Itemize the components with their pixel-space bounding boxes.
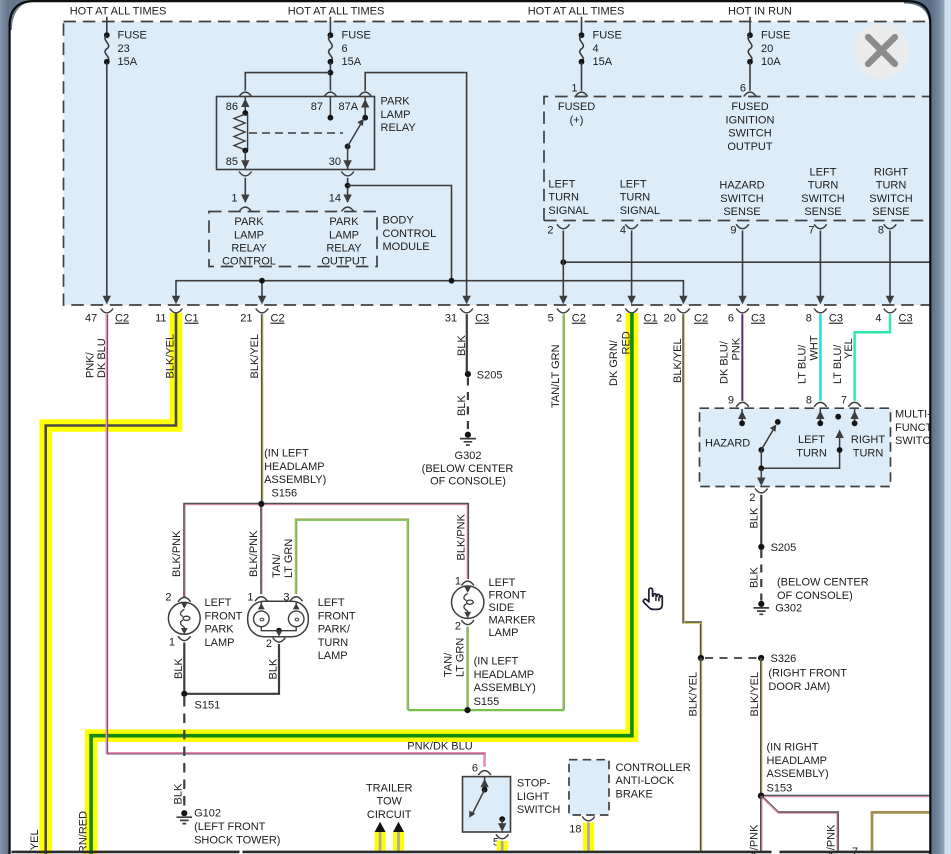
label LEFT TURN SIGNAL (pin 4) xyxy=(620,178,660,217)
svg-text:SENSE: SENSE xyxy=(723,206,760,218)
label LEFT FRONT PARK/ TURN LAMP xyxy=(318,597,356,662)
svg-text:PARK: PARK xyxy=(234,216,264,228)
stop-light pin 5 connector xyxy=(493,834,509,848)
highlight band BLK/YEL circuit 11 C1 xyxy=(46,313,176,854)
svg-text:BLK: BLK xyxy=(749,567,761,588)
svg-text:LAMP: LAMP xyxy=(205,637,235,649)
svg-text:MULTI-: MULTI- xyxy=(895,409,931,421)
svg-text:BRAKE: BRAKE xyxy=(616,789,653,801)
svg-text:C2: C2 xyxy=(271,313,285,325)
relay pin 86 connector xyxy=(226,92,252,113)
svg-text:15A: 15A xyxy=(593,56,613,68)
svg-text:HOT AT ALL TIMES: HOT AT ALL TIMES xyxy=(288,6,385,18)
svg-text:HOT IN RUN: HOT IN RUN xyxy=(728,6,792,18)
svg-text:RIGHT: RIGHT xyxy=(874,166,909,178)
lamp LEFT FRONT SIDE MARKER LAMP xyxy=(452,576,484,633)
ground G102 (LEFT FRONT SHOCK TOWER) xyxy=(177,808,281,847)
MFS pin 9 connector xyxy=(728,395,749,407)
wire bus A (turn signal feed) xyxy=(560,259,929,265)
lamp LEFT FRONT PARK LAMP xyxy=(165,592,200,649)
relay switch contacts xyxy=(328,97,370,169)
svg-text:8: 8 xyxy=(878,225,884,237)
connector 47 C2 xyxy=(85,309,129,325)
wire pin 7 to connector 8 C3 xyxy=(816,231,824,305)
svg-text:7: 7 xyxy=(808,225,814,237)
wire DK BLU/PNK from 6 C3 to multi-function switch pin 9 xyxy=(741,314,744,401)
svg-text:LAMP: LAMP xyxy=(329,229,359,241)
svg-text:2: 2 xyxy=(547,225,553,237)
connector 21 C2 xyxy=(240,309,284,325)
svg-text:RELAY: RELAY xyxy=(381,122,417,134)
svg-text:SENSE: SENSE xyxy=(804,206,841,218)
stop-light switch contacts xyxy=(469,777,506,832)
svg-text:1: 1 xyxy=(455,576,461,588)
highlight band trailer stub right xyxy=(393,832,404,851)
label CONTROLLER ANTI-LOCK BRAKE xyxy=(616,762,691,801)
svg-text:15A: 15A xyxy=(118,56,138,68)
connector 4 C3 xyxy=(875,309,912,325)
svg-text:FRONT: FRONT xyxy=(318,610,356,622)
svg-text:DK GRN/RED: DK GRN/RED xyxy=(78,811,90,854)
pin 8 connector at function box xyxy=(878,224,896,236)
label BODY CONTROL MODULE xyxy=(383,215,437,254)
highlight band ABS pin 18 stub xyxy=(583,823,594,851)
stop-light switch box xyxy=(463,777,511,832)
svg-text:OUTPUT: OUTPUT xyxy=(321,256,367,268)
pin 1 connector at fused box xyxy=(571,83,587,97)
svg-text:BLK/YEL: BLK/YEL xyxy=(749,672,761,717)
splice S205 (console) xyxy=(465,369,503,381)
fused output function box (dashed inner box) xyxy=(544,97,935,221)
svg-text:HOT AT ALL TIMES: HOT AT ALL TIMES xyxy=(70,6,167,18)
connector 8 C3 xyxy=(806,309,843,325)
svg-text:PARK/: PARK/ xyxy=(318,624,351,636)
svg-text:87A: 87A xyxy=(339,101,359,113)
wire BLK/YEL from 21 C2 to splice S156 xyxy=(261,314,264,504)
MFS switch lever xyxy=(758,419,780,453)
relay pin 87A connector xyxy=(339,92,372,113)
svg-text:20: 20 xyxy=(664,313,676,325)
wire BLK/YEL S326 to splice S153 xyxy=(760,658,763,796)
svg-text:LEFT: LEFT xyxy=(489,577,516,589)
highlight band stop-light pin 5 stub xyxy=(497,841,508,851)
wire ABS pin 18 stub xyxy=(587,823,590,851)
svg-text:LEFT: LEFT xyxy=(810,166,837,178)
svg-text:LAMP: LAMP xyxy=(489,627,519,639)
svg-text:MODULE: MODULE xyxy=(383,241,430,253)
svg-text:BLK/PNK: BLK/PNK xyxy=(171,530,183,577)
svg-text:(IN LEFT: (IN LEFT xyxy=(264,448,309,460)
svg-text:2: 2 xyxy=(749,492,755,504)
svg-text:HEADLAMP: HEADLAMP xyxy=(474,669,535,681)
BCM pin 1 connector xyxy=(231,193,251,212)
svg-text:FRONT: FRONT xyxy=(489,589,527,601)
label MULTI-FUNCTION SWITCH xyxy=(895,409,944,448)
svg-text:47: 47 xyxy=(85,313,97,325)
relay pin 85 connector xyxy=(226,156,252,176)
label LEFT TURN SIGNAL (pin 2) xyxy=(548,178,588,217)
connector 2 C1 xyxy=(616,309,658,325)
svg-text:SHOCK TOWER): SHOCK TOWER) xyxy=(194,834,280,846)
svg-text:10A: 10A xyxy=(761,56,781,68)
label PARK LAMP RELAY OUTPUT xyxy=(321,216,367,268)
svg-text:C3: C3 xyxy=(899,313,913,325)
svg-text:PARK: PARK xyxy=(205,624,235,636)
svg-text:HEADLAMP: HEADLAMP xyxy=(264,461,325,473)
pin 2 connector at function box xyxy=(547,224,569,236)
svg-text:(LEFT FRONT: (LEFT FRONT xyxy=(194,821,266,833)
svg-text:TOW: TOW xyxy=(376,796,402,808)
svg-text:TURN: TURN xyxy=(620,192,651,204)
svg-text:PNK/DK BLU: PNK/DK BLU xyxy=(407,741,472,753)
svg-text:DK GRN/: DK GRN/ xyxy=(608,339,620,386)
fuse F20 10A xyxy=(747,17,790,68)
MFS right turn branch xyxy=(758,414,843,471)
svg-text:LT GRN: LT GRN xyxy=(283,539,295,578)
svg-text:BLK/PNK: BLK/PNK xyxy=(826,824,838,854)
svg-text:TURN: TURN xyxy=(318,637,349,649)
svg-text:6: 6 xyxy=(740,83,746,95)
svg-text:FUSED: FUSED xyxy=(731,101,768,113)
wire TAN/LT GRN bus at splice S155 xyxy=(408,627,564,710)
svg-text:LT BLU/: LT BLU/ xyxy=(797,344,809,384)
highlight band DK GRN/RED circuit 2 C1 xyxy=(91,313,632,854)
svg-text:S205: S205 xyxy=(771,542,797,554)
body control module box xyxy=(209,212,377,267)
label PARK LAMP RELAY xyxy=(381,96,417,135)
svg-text:SIGNAL: SIGNAL xyxy=(620,205,660,217)
svg-text:ANTI-LOCK: ANTI-LOCK xyxy=(616,775,675,787)
svg-text:BLK/YEL: BLK/YEL xyxy=(249,334,261,379)
splice S326 (RIGHT FRONT DOOR JAM) xyxy=(698,653,848,693)
wire pin 9 to connector 6 C3 xyxy=(738,231,746,305)
connector 11 C1 xyxy=(155,309,198,325)
label DK BLU/ PNK (6 C3) xyxy=(719,337,743,384)
MFS pin 7 contact xyxy=(850,409,858,426)
wire TAN/LT GRN from 5 C2 to splice S155 xyxy=(563,314,564,710)
svg-text:2: 2 xyxy=(616,313,622,325)
svg-text:4: 4 xyxy=(620,225,626,237)
svg-text:C1: C1 xyxy=(644,313,658,325)
svg-text:WHT: WHT xyxy=(809,335,821,360)
label RIGHT TURN SWITCH SENSE (pin 8) xyxy=(869,166,912,218)
node under fuse 6 xyxy=(328,70,334,76)
svg-text:PNK/: PNK/ xyxy=(85,351,97,378)
wire BLK/PNK S153 straight down xyxy=(760,796,763,851)
BCM pin 14 connector xyxy=(329,193,354,212)
svg-text:C3: C3 xyxy=(829,313,843,325)
svg-text:SWITCH: SWITCH xyxy=(801,193,844,205)
relay coil xyxy=(234,97,250,169)
wire TAN corner at bottom right xyxy=(872,812,930,850)
svg-text:FUSE: FUSE xyxy=(118,30,147,42)
svg-text:(RIGHT FRONT: (RIGHT FRONT xyxy=(768,668,847,680)
svg-text:S153: S153 xyxy=(767,782,793,794)
svg-text:8: 8 xyxy=(806,395,812,407)
svg-text:MARKER: MARKER xyxy=(489,614,536,626)
svg-text:LT GRN: LT GRN xyxy=(455,638,467,677)
label TAN/ LT GRN (side marker pin 2) xyxy=(443,638,467,677)
close button xyxy=(854,23,909,78)
svg-text:S155: S155 xyxy=(474,696,500,708)
wire power bus to relay pins 86 87A and connector 31 C3 xyxy=(245,73,470,305)
MFS hazard contact xyxy=(738,409,746,426)
svg-text:87: 87 xyxy=(311,101,323,113)
MFS pin 8 connector xyxy=(806,395,827,407)
wire TAN/LT GRN park/turn pin 3 to splice S155 xyxy=(295,519,408,710)
svg-text:BLK: BLK xyxy=(173,783,185,804)
svg-text:23: 23 xyxy=(118,43,130,55)
svg-text:TURN: TURN xyxy=(808,180,839,192)
label PNK/ DK BLU (47 C2) xyxy=(85,338,109,378)
svg-text:2: 2 xyxy=(455,621,461,633)
wire relay 85 to BCM pin 1 xyxy=(241,178,249,203)
svg-text:TURN: TURN xyxy=(876,180,907,192)
svg-text:G302: G302 xyxy=(775,603,802,615)
wire fuse 4 to pin 1 FUSED(+) xyxy=(581,63,583,91)
wire BLK/YEL highlighted core (11 C1) xyxy=(46,313,176,854)
wire BLK/YEL from 20 C2 to splice S326 xyxy=(683,314,701,656)
svg-text:CIRCUIT: CIRCUIT xyxy=(367,809,412,821)
label LEFT FRONT PARK LAMP xyxy=(205,597,243,649)
svg-text:SIDE: SIDE xyxy=(489,602,515,614)
connector 31 C3 xyxy=(445,309,489,325)
wire PNK/DK BLU from 47 C2 to stop-light switch pin 6 xyxy=(107,314,485,767)
splice node S153 xyxy=(758,793,765,800)
svg-text:OF CONSOLE): OF CONSOLE) xyxy=(430,475,506,487)
svg-text:1: 1 xyxy=(231,193,237,205)
svg-text:HAZARD: HAZARD xyxy=(719,180,764,192)
svg-text:OF CONSOLE): OF CONSOLE) xyxy=(777,590,853,602)
svg-text:LEFT: LEFT xyxy=(798,434,825,446)
svg-text:RIGHT: RIGHT xyxy=(851,434,886,446)
ABS pin 18 connector xyxy=(569,817,595,836)
svg-text:RELAY: RELAY xyxy=(231,243,267,255)
svg-text:LAMP: LAMP xyxy=(234,229,264,241)
wire stop-light pin 5 stub xyxy=(501,841,504,851)
svg-text:SWITCH: SWITCH xyxy=(869,193,912,205)
svg-text:DK BLU/: DK BLU/ xyxy=(719,340,731,384)
svg-text:TURN: TURN xyxy=(548,192,579,204)
svg-text:BODY: BODY xyxy=(383,215,415,227)
svg-text:BLK/YEL: BLK/YEL xyxy=(29,829,41,854)
svg-text:9: 9 xyxy=(728,395,734,407)
wire BLK MFS pin 2 to splice S205 xyxy=(760,495,762,547)
svg-text:SIGNAL: SIGNAL xyxy=(548,205,588,217)
pin 6 connector at fused box xyxy=(740,83,756,97)
svg-text:BLK/YEL: BLK/YEL xyxy=(165,334,177,379)
label FUSED IGNITION SWITCH OUTPUT xyxy=(726,101,775,153)
wire fuse 6 to relay pin 87 xyxy=(329,63,331,91)
wire trailer stub right xyxy=(397,832,400,851)
wire relay 30 to BCM pin 14 and output bus xyxy=(343,178,451,281)
svg-text:RED: RED xyxy=(621,331,633,354)
stop-light pin 6 connector xyxy=(472,762,491,775)
lamp LEFT FRONT PARK/TURN LAMP xyxy=(247,592,308,651)
svg-text:8: 8 xyxy=(806,313,812,325)
svg-text:C1: C1 xyxy=(185,313,199,325)
label DK GRN/ RED (2 C1) xyxy=(608,331,633,386)
svg-text:FUSE: FUSE xyxy=(761,30,790,42)
multi-function switch box xyxy=(700,408,891,486)
highlight band trailer stub left xyxy=(375,832,386,851)
svg-text:BLK: BLK xyxy=(456,335,468,356)
label S155 (IN LEFT HEADLAMP ASSEMBLY) xyxy=(474,656,536,709)
relay internal dashed link xyxy=(249,132,343,134)
wire trailer stub left xyxy=(379,832,382,851)
wire bus B (park lamp feed) xyxy=(172,278,688,304)
svg-text:14: 14 xyxy=(329,193,341,205)
wire LT BLU/WHT from 8 C3 to multi-function switch pin 8 xyxy=(819,314,822,401)
svg-text:BLK: BLK xyxy=(749,507,761,528)
MFS pin 7 connector xyxy=(841,395,861,407)
svg-text:SWITCH: SWITCH xyxy=(517,804,560,816)
svg-text:TAN/: TAN/ xyxy=(443,652,455,677)
svg-text:2: 2 xyxy=(165,592,171,604)
svg-text:RELAY: RELAY xyxy=(326,243,362,255)
connector 6 C3 xyxy=(728,309,765,325)
svg-text:FRONT: FRONT xyxy=(205,610,243,622)
label RIGHT TURN (MFS) xyxy=(851,434,886,459)
svg-text:DOOR JAM): DOOR JAM) xyxy=(768,681,830,693)
relay K1 PARK LAMP RELAY box xyxy=(217,97,375,170)
svg-text:31: 31 xyxy=(445,313,457,325)
trailer tow arrow left xyxy=(375,822,386,832)
svg-text:TAN/LT GRN: TAN/LT GRN xyxy=(550,344,562,408)
label TRAILER TOW CIRCUIT xyxy=(366,782,413,821)
label LT BLU/ YEL (4 C3) xyxy=(832,338,855,384)
label LEFT FRONT SIDE MARKER LAMP xyxy=(489,577,536,639)
svg-text:G302: G302 xyxy=(455,450,482,462)
svg-text:S326: S326 xyxy=(771,653,797,665)
svg-text:SWITCH: SWITCH xyxy=(720,193,763,205)
pin 4 connector at function box xyxy=(620,224,638,236)
svg-text:SENSE: SENSE xyxy=(872,206,909,218)
wire BLK/PNK bus from splice S156 xyxy=(184,504,468,597)
svg-text:FUSED: FUSED xyxy=(558,101,595,113)
svg-text:TURN: TURN xyxy=(796,447,827,459)
svg-text:TRAILER: TRAILER xyxy=(366,782,413,794)
svg-text:21: 21 xyxy=(240,313,252,325)
wire LT BLU/YEL from 4 C3 to multi-function switch pin 7 xyxy=(855,314,890,401)
wire BLK/YEL S326 down (left leg) xyxy=(700,658,703,851)
svg-text:2: 2 xyxy=(266,638,272,650)
power distribution box (HOT AT ALL TIMES block) xyxy=(64,22,936,306)
connector 5 C2 xyxy=(548,309,586,325)
fuse F23 15A xyxy=(104,17,147,68)
svg-text:4: 4 xyxy=(875,313,881,325)
fuse F6 15A xyxy=(328,17,371,68)
svg-text:STOP-: STOP- xyxy=(517,778,551,790)
svg-text:YEL: YEL xyxy=(843,338,855,359)
wire DK GRN/RED highlighted core (2 C1) xyxy=(91,313,632,854)
splice node S156 xyxy=(258,501,264,507)
svg-text:C2: C2 xyxy=(694,313,708,325)
svg-text:S151: S151 xyxy=(195,699,221,711)
svg-text:CONTROL: CONTROL xyxy=(222,256,276,268)
label (IN RIGHT HEADLAMP ASSEMBLY) S153 xyxy=(767,742,829,795)
wire pin 2 to connector 5 C2 xyxy=(559,231,567,305)
svg-text:FUSE: FUSE xyxy=(593,30,622,42)
svg-text:PARK: PARK xyxy=(381,96,411,108)
svg-text:85: 85 xyxy=(226,156,238,168)
svg-text:(IN RIGHT: (IN RIGHT xyxy=(767,742,819,754)
svg-text:BLK: BLK xyxy=(268,658,280,679)
svg-text:G102: G102 xyxy=(194,808,221,820)
svg-text:BLK: BLK xyxy=(173,658,185,679)
svg-text:1: 1 xyxy=(169,637,175,649)
svg-text:LAMP: LAMP xyxy=(318,650,348,662)
svg-text:30: 30 xyxy=(329,156,341,168)
splice node S151 xyxy=(181,691,220,712)
svg-text:(BELOW CENTER: (BELOW CENTER xyxy=(777,577,869,589)
svg-text:SWITCH: SWITCH xyxy=(728,128,771,140)
wire BLK park/turn pin 2 to splice S151 xyxy=(184,644,279,694)
svg-text:6: 6 xyxy=(728,313,734,325)
svg-text:1: 1 xyxy=(247,592,253,604)
svg-text:PARK: PARK xyxy=(329,216,359,228)
wire BLK dashed S151 to ground G102 xyxy=(183,697,185,809)
wire BLK from 31 C3 to splice S205 xyxy=(466,314,468,372)
svg-text:LEFT: LEFT xyxy=(318,597,345,609)
wire BLK park lamp pin 1 to splice S151 xyxy=(183,643,185,694)
wire pin 4 to connector 2 C1 xyxy=(627,231,635,305)
svg-text:C3: C3 xyxy=(751,313,765,325)
splice S205 (right) xyxy=(758,542,796,554)
mouse cursor (hand pointer) xyxy=(643,588,662,609)
relay pin 30 connector xyxy=(329,156,354,176)
wire BLK/PNK S153 to right edge xyxy=(764,795,930,798)
svg-text:C3: C3 xyxy=(475,313,489,325)
pin 7 connector at function box xyxy=(808,224,826,236)
label STOP- LIGHT SWITCH xyxy=(517,778,560,817)
svg-text:BLK/PNK: BLK/PNK xyxy=(456,513,468,560)
trailer tow arrow right xyxy=(393,822,404,832)
fuse F4 15A xyxy=(579,17,622,68)
svg-text:LIGHT: LIGHT xyxy=(517,791,550,803)
wire BLK/PNK S153 diagonal branch xyxy=(761,796,838,851)
svg-text:9: 9 xyxy=(730,225,736,237)
svg-text:FUSE: FUSE xyxy=(342,30,371,42)
svg-text:18: 18 xyxy=(569,823,581,835)
svg-text:BLK/PNK: BLK/PNK xyxy=(248,530,260,577)
svg-text:ASSEMBLY): ASSEMBLY) xyxy=(474,682,536,694)
svg-text:HAZARD: HAZARD xyxy=(705,438,750,450)
svg-text:OUTPUT: OUTPUT xyxy=(727,141,773,153)
splice S156 label (IN LEFT HEADLAMP ASSEMBLY) xyxy=(264,448,326,500)
label HAZARD SWITCH SENSE (pin 9) xyxy=(719,180,764,219)
svg-text:(+): (+) xyxy=(570,114,584,126)
svg-text:11: 11 xyxy=(155,313,166,325)
svg-text:DK BLU: DK BLU xyxy=(96,338,108,378)
wire BLK dashed S205 to G302 xyxy=(467,378,469,432)
svg-text:C2: C2 xyxy=(115,313,129,325)
svg-text:HOT AT ALL TIMES: HOT AT ALL TIMES xyxy=(528,6,625,18)
wire fuse 20 to pin 6 FUSED IGNITION SWITCH OUTPUT xyxy=(749,63,751,91)
svg-text:BLK/PNK: BLK/PNK xyxy=(749,824,761,854)
svg-text:CONTROLLER: CONTROLLER xyxy=(616,762,691,774)
svg-text:4: 4 xyxy=(593,43,599,55)
svg-text:BLK/YEL: BLK/YEL xyxy=(672,338,684,383)
svg-text:(BELOW CENTER: (BELOW CENTER xyxy=(422,463,514,475)
relay pin 87 connector xyxy=(311,92,337,113)
label LEFT TURN (MFS) xyxy=(796,434,827,459)
svg-text:S205: S205 xyxy=(477,369,503,381)
connector 20 C2 xyxy=(664,309,708,325)
svg-text:6: 6 xyxy=(342,43,348,55)
label (BELOW CENTER OF CONSOLE) right xyxy=(777,577,869,602)
svg-text:C2: C2 xyxy=(572,313,586,325)
